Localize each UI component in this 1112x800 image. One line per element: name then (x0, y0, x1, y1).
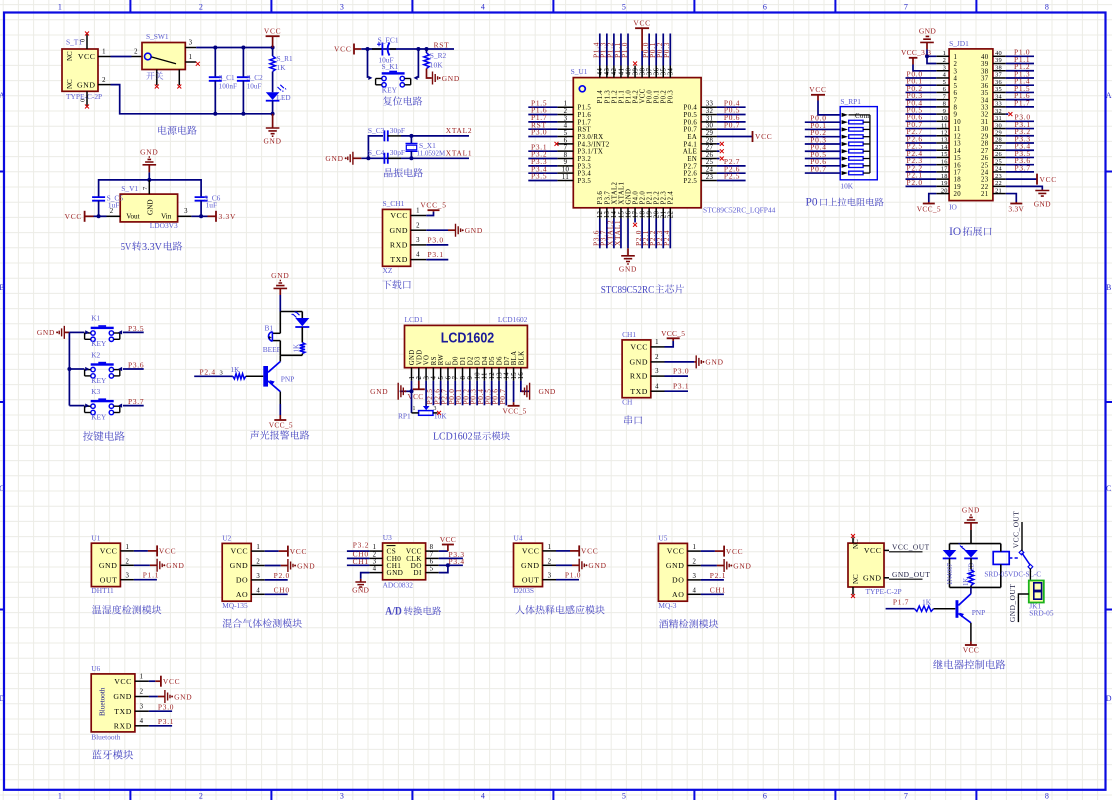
svg-text:VO: VO (424, 355, 431, 366)
pin 25 of JD1 (993, 164, 1006, 166)
svg-text:EN: EN (687, 156, 697, 163)
power port VCC (U1) (148, 550, 157, 552)
svg-text:VCC: VCC (864, 546, 882, 555)
svg-text:39: 39 (632, 68, 639, 76)
svg-text:P1.7: P1.7 (578, 119, 592, 126)
svg-text:XTAL1: XTAL1 (613, 220, 622, 246)
svg-text:14: 14 (611, 211, 618, 219)
svg-text:P3.4: P3.4 (578, 171, 592, 178)
svg-text:VCC_5: VCC_5 (917, 204, 941, 213)
capacitor EC1 10uF electrolytic (372, 48, 382, 50)
wire K2 to P3.6 (123, 368, 144, 370)
svg-text:GND: GND (370, 387, 388, 396)
power port VCC (U5) (715, 550, 724, 552)
pin 44 of U1 (599, 66, 601, 78)
svg-text:28: 28 (995, 137, 1002, 144)
wire net P3.2 (U1 left) (528, 158, 557, 160)
svg-text:1: 1 (58, 3, 62, 12)
pin 2 of V1 (107, 215, 121, 217)
pin 2 of U1 (120, 564, 133, 566)
pin 21 of JD1 (993, 193, 1006, 195)
regulator V1 LDO3V3 (120, 194, 177, 222)
wire net P1.4 (JD1 right) (1006, 84, 1034, 86)
svg-text:18: 18 (639, 211, 646, 219)
svg-text:GND: GND (230, 561, 249, 570)
svg-text:20: 20 (954, 191, 962, 198)
svg-text:34: 34 (981, 97, 989, 104)
wire EA to VCC (717, 136, 753, 138)
svg-text:1: 1 (548, 544, 552, 551)
pin 30 of U1 (701, 128, 717, 130)
svg-text:33: 33 (981, 104, 989, 111)
svg-text:7: 7 (904, 3, 908, 12)
pin 6 of U1 (557, 143, 573, 145)
wire U1 pin2 to GND (134, 564, 150, 566)
wire VCC_OUT stub (889, 551, 923, 553)
svg-text:P2.2: P2.2 (654, 191, 661, 205)
svg-text:15: 15 (941, 151, 948, 158)
svg-text:VCC: VCC (100, 547, 118, 556)
svg-text:VCC: VCC (408, 393, 424, 401)
wire net P2.2 (U1 bottom) (655, 219, 657, 249)
svg-text:19: 19 (941, 180, 948, 187)
svg-text:P0.7: P0.7 (684, 127, 698, 134)
svg-text:4: 4 (481, 3, 485, 12)
wire net P2.5 (LCD) (432, 381, 434, 406)
svg-text:P2.0: P2.0 (640, 191, 647, 205)
pin 2 of SW1 (132, 56, 143, 58)
svg-text:E: E (445, 361, 452, 366)
pin 1 of JD1 (936, 55, 949, 57)
capacitor C1 100nF (214, 48, 216, 78)
wire net P2.0 (JD1 left) (906, 185, 937, 187)
svg-text:A/D: A/D (385, 605, 402, 617)
svg-text:3: 3 (655, 368, 659, 375)
power port VCC (U6) (155, 680, 160, 682)
svg-text:12: 12 (941, 129, 948, 136)
svg-text:NC: NC (66, 51, 74, 61)
title 按键电路 (83, 431, 125, 441)
no-ERC marker on SW1 bottom pin A (155, 85, 159, 89)
svg-text:VDD: VDD (416, 350, 423, 366)
wire net CH1 (U3) (347, 564, 370, 566)
svg-text:34: 34 (995, 93, 1002, 100)
svg-text:3: 3 (954, 68, 958, 75)
wire net P3.6 (JD1 right) (1006, 164, 1034, 166)
relay coil SRD-05VDC-SL-C (993, 552, 1009, 565)
ground GND (U5) (717, 565, 724, 567)
pin 8 of U1 (557, 158, 573, 160)
svg-text:D2: D2 (467, 356, 474, 365)
svg-text:13: 13 (954, 141, 962, 148)
svg-text:12: 12 (954, 133, 962, 140)
wire U4 pin1 to VCC (556, 550, 570, 552)
wire net P3.2 (JD1 right) (1006, 135, 1034, 137)
svg-text:GND: GND (629, 358, 648, 367)
svg-text:P3.4: P3.4 (449, 557, 465, 566)
wire net P3.0 (U6) (149, 710, 172, 712)
svg-text:24: 24 (995, 166, 1002, 173)
wire resistor to base (246, 375, 263, 377)
svg-text:GND: GND (705, 358, 723, 367)
svg-text:6: 6 (763, 3, 767, 12)
svg-text:S_C4: S_C4 (368, 148, 385, 157)
svg-text:XTAL1: XTAL1 (446, 149, 473, 158)
switch SW1 (142, 43, 185, 70)
power port VCC_5 (JD1) (928, 202, 930, 204)
svg-text:GND: GND (140, 147, 158, 156)
svg-text:22: 22 (981, 184, 989, 191)
svg-text:GND: GND (147, 199, 155, 215)
title 继电器控制电路 (933, 660, 1005, 670)
svg-text:9: 9 (943, 108, 946, 115)
svg-text:D203S: D203S (514, 586, 535, 595)
pin 37 of U1 (648, 66, 650, 78)
pin 5 of LCD1 (440, 368, 442, 381)
svg-text:1: 1 (256, 544, 260, 551)
svg-text:P4.0: P4.0 (632, 191, 639, 205)
wire net P1.1 (U1 top) (620, 34, 622, 66)
title 下载口 (382, 280, 411, 289)
pin 6 of LCD1 (447, 368, 449, 381)
svg-text:28: 28 (981, 141, 989, 148)
svg-text:3.3V: 3.3V (142, 241, 162, 253)
svg-text:LCD1: LCD1 (405, 315, 424, 324)
pin 20 of U1 (655, 208, 657, 219)
svg-text:DO: DO (672, 576, 684, 585)
svg-text:GND: GND (666, 561, 685, 570)
svg-text:3: 3 (340, 791, 344, 800)
svg-text:6: 6 (943, 86, 946, 93)
wire U3 DI to DO (439, 565, 448, 572)
pin 5 of JD1 (936, 84, 949, 86)
svg-text:19: 19 (646, 211, 653, 219)
resistor 1K (relay LED) (968, 570, 973, 586)
svg-text:KEY: KEY (91, 339, 107, 348)
svg-text:1: 1 (102, 49, 106, 56)
wire U3 GND pin4 (361, 573, 370, 579)
svg-text:21: 21 (661, 211, 668, 218)
svg-text:26: 26 (981, 155, 989, 162)
ground GND (U1) (627, 248, 629, 256)
wire net P1.1 (JD1 right) (1006, 63, 1034, 65)
ground GND (alarm) (274, 281, 288, 289)
wire net P1.5 (JD1 right) (1006, 91, 1034, 93)
svg-text:P0.3: P0.3 (662, 42, 671, 58)
svg-text:3: 3 (564, 115, 568, 122)
svg-text:C: C (1106, 484, 1111, 493)
svg-text:6: 6 (564, 137, 568, 144)
svg-text:VCC: VCC (231, 547, 249, 556)
pin 1 of CH (651, 346, 665, 348)
ground GND (U4) (572, 564, 579, 566)
pin 39 of JD1 (993, 63, 1006, 65)
connector TYPE-C-2P (relay) (848, 543, 884, 587)
title 人体热释电感应模块 (515, 605, 604, 614)
svg-text:4: 4 (481, 791, 485, 800)
pin 3 of JD1 (936, 70, 949, 72)
svg-text:34: 34 (668, 68, 675, 76)
display LCD1 LCD1602 body (405, 325, 528, 367)
wire collector (alarm) (279, 355, 281, 361)
svg-text:VCC: VCC (159, 547, 176, 556)
power port VCC (EA) (752, 131, 754, 142)
svg-text:24: 24 (981, 170, 989, 177)
junction at C6 bottom (199, 214, 203, 218)
svg-text:22: 22 (668, 211, 675, 219)
svg-text:30: 30 (981, 126, 989, 133)
svg-text:GND: GND (733, 561, 751, 570)
svg-text:P1.4: P1.4 (597, 90, 604, 104)
junction key bus K2 (67, 367, 71, 371)
svg-text:7: 7 (564, 145, 568, 152)
svg-text:2: 2 (140, 689, 144, 696)
svg-text:4: 4 (954, 76, 958, 83)
svg-text:CH1: CH1 (622, 330, 636, 339)
wire CH pin1 to VCC_5 (665, 341, 674, 347)
wire T1 VCC to switch SW1 (111, 56, 132, 58)
svg-text:P1.6: P1.6 (578, 112, 592, 119)
wire net RST (U1 left) (528, 128, 557, 130)
key switch K1 (reset) (382, 72, 405, 74)
svg-text:1: 1 (126, 544, 130, 551)
svg-text:P3.3: P3.3 (578, 163, 592, 170)
svg-text:5: 5 (622, 3, 626, 12)
wire alarm GND stem (279, 295, 281, 312)
svg-text:1uF: 1uF (108, 200, 120, 209)
wire net P2.6 (JD1 left) (906, 142, 937, 144)
svg-text:35: 35 (995, 86, 1002, 93)
svg-text:P1.1: P1.1 (618, 90, 625, 104)
svg-text:9: 9 (564, 159, 568, 166)
svg-text:P1.7: P1.7 (1014, 98, 1030, 107)
pin 1 of CH1 (411, 215, 427, 217)
svg-text:GND: GND (297, 561, 315, 570)
wire JD1 pin22 to GND (1006, 186, 1043, 189)
pin 5 of U3 (426, 572, 439, 574)
wire LDO top rail (99, 180, 202, 196)
svg-text:RW: RW (438, 354, 445, 366)
resistor network RP1 10K (840, 107, 877, 180)
wire net P2.5 (JD1 left) (906, 149, 937, 151)
wire LCD pin3 to potentiometer wiper (425, 381, 427, 407)
wire net P2.7 (JD1 left) (906, 135, 937, 137)
svg-text:1: 1 (409, 376, 416, 380)
svg-text:P0.3: P0.3 (668, 90, 675, 104)
svg-text:VCC: VCC (440, 535, 456, 544)
junction at C1 top (213, 46, 217, 50)
svg-text:3: 3 (340, 3, 344, 12)
svg-text:P3.5: P3.5 (531, 172, 547, 181)
svg-text:9: 9 (954, 112, 958, 119)
pin 2 of U2 (251, 565, 265, 567)
svg-text:25: 25 (981, 162, 989, 169)
wire K1 to P3.5 (123, 331, 144, 333)
wire net P2.7 (U1 right) (717, 165, 746, 167)
no-ERC marker on U1 pin 6 (555, 142, 559, 146)
wire net P3.3 (JD1 right) (1006, 142, 1034, 144)
svg-text:2: 2 (943, 57, 946, 64)
svg-text:31: 31 (981, 119, 989, 126)
title 晶振电路 (384, 168, 423, 177)
svg-text:S_EC1: S_EC1 (378, 35, 399, 44)
pin 37 of JD1 (993, 77, 1006, 79)
svg-text:14: 14 (504, 372, 511, 380)
svg-text:3.3V: 3.3V (219, 212, 237, 221)
wire net P1.2 (U1 top) (613, 34, 615, 66)
svg-text:20: 20 (654, 211, 661, 219)
wire P3.0 (XZ) (426, 244, 448, 246)
svg-text:LCD1602: LCD1602 (441, 331, 495, 347)
wire branch up to C3 (368, 136, 383, 158)
svg-text:4: 4 (416, 252, 420, 259)
svg-text:DI: DI (413, 569, 422, 577)
pin 2 of CH (651, 361, 665, 363)
svg-text:VCC: VCC (522, 547, 540, 556)
wire net P0.4 (RP1) (805, 150, 840, 152)
wire net P1.6 (U1 left) (528, 114, 557, 116)
svg-text:2: 2 (548, 558, 552, 565)
LED D2 (alarm) (301, 312, 303, 319)
svg-text:U3: U3 (383, 533, 392, 542)
wire net P2.4 (JD1 left) (906, 156, 937, 158)
pin 36 of JD1 (993, 84, 1006, 86)
wire net P0.6 (JD1 left) (906, 120, 937, 122)
svg-text:12: 12 (597, 211, 604, 219)
pin 4 of U1 (557, 128, 573, 130)
connector CH serial port (622, 340, 651, 398)
svg-text:RXD: RXD (390, 241, 408, 250)
svg-text:D6: D6 (496, 356, 503, 365)
wire K3 to P3.7 (123, 405, 144, 407)
svg-text:U6: U6 (91, 664, 100, 673)
wire XTAL2 net (401, 135, 469, 137)
svg-text:P4.1: P4.1 (684, 141, 698, 148)
svg-text:D: D (1106, 694, 1112, 703)
svg-text:VCC: VCC (633, 18, 650, 27)
svg-text:2: 2 (126, 558, 130, 565)
pin 30 of JD1 (993, 128, 1006, 130)
pin 38 of U1 (641, 66, 643, 78)
svg-text:4: 4 (943, 72, 947, 79)
svg-text:2: 2 (416, 222, 420, 229)
wire LCD pin16 BLK to GND (521, 381, 529, 392)
capacitor C3 30pF (384, 130, 387, 141)
svg-text:7: 7 (453, 376, 460, 380)
power port 3.3V (JD1) (1015, 202, 1017, 204)
wire net P1.0 (U4) (556, 579, 579, 581)
svg-text:2: 2 (199, 3, 203, 12)
svg-text:S_C1: S_C1 (219, 74, 235, 82)
svg-text:4: 4 (256, 587, 260, 594)
pin 16 of U1 (627, 208, 629, 219)
wire net P2.6 (U1 right) (717, 172, 746, 174)
svg-text:1K: 1K (293, 344, 301, 353)
wire net P3.7 (JD1 right) (1006, 171, 1034, 173)
LED D4 (relay) (964, 550, 978, 558)
wire net P0.5 (RP1) (805, 158, 840, 160)
pin 4 of U6 (135, 725, 149, 727)
no-ERC marker on relay TYPE-C top (851, 534, 855, 538)
svg-text:VCC_5: VCC_5 (269, 420, 293, 429)
pin 39 of U1 (634, 66, 636, 78)
svg-text:P3.1: P3.1 (673, 382, 689, 391)
svg-text:GND_OUT: GND_OUT (892, 570, 930, 579)
wire net P2.1 (U5) (701, 579, 724, 581)
svg-text:KEY: KEY (91, 412, 107, 421)
pin 13 of U1 (606, 208, 608, 219)
svg-text:P0.0: P0.0 (647, 90, 654, 104)
svg-text:4: 4 (431, 376, 438, 380)
wire net P0.4 (U1 right) (717, 106, 746, 108)
svg-text:10: 10 (562, 167, 570, 174)
svg-text:0: 0 (80, 99, 87, 102)
pin 38 of JD1 (993, 70, 1006, 72)
power port VCC (LCD pin2) (418, 381, 420, 390)
pin 16 of JD1 (936, 164, 949, 166)
pin 7 of U1 (557, 150, 573, 152)
svg-text:1: 1 (416, 208, 420, 215)
pin 32 of JD1 (993, 113, 1006, 115)
wire net P3.2 (U3) (347, 550, 370, 552)
svg-text:1: 1 (413, 406, 416, 412)
svg-text:P0.7: P0.7 (810, 164, 826, 173)
no-ERC marker on JD1 pin 32 (1006, 113, 1009, 115)
wire net P3.0 (JD1 right) (1006, 120, 1034, 122)
svg-text:RP1: RP1 (398, 412, 411, 421)
wire net P3.3 (U3) (439, 557, 463, 559)
wire net P3.3 (U1 left) (528, 165, 557, 167)
svg-text:37: 37 (995, 72, 1002, 79)
svg-text:37: 37 (981, 76, 989, 83)
relay switch contact (1009, 557, 1019, 559)
ground GND (XZ) (448, 229, 456, 231)
svg-text:LCD1602: LCD1602 (498, 315, 528, 324)
svg-text:VCC: VCC (163, 677, 180, 686)
svg-text:P2.5: P2.5 (724, 172, 740, 181)
pin 8 of U3 (426, 550, 439, 552)
svg-text:A: A (0, 91, 5, 100)
svg-text:25: 25 (995, 158, 1002, 165)
wire net CH0 (U2) (265, 593, 288, 595)
svg-text:35: 35 (661, 68, 668, 76)
svg-text:VCC: VCC (114, 677, 132, 686)
pin 2 of LCD1 (418, 368, 420, 381)
pin 3 of U3 (369, 564, 382, 566)
svg-text:3: 3 (126, 573, 130, 580)
svg-text:P1.7: P1.7 (893, 598, 909, 607)
wire net P1.0 (JD1 right) (1006, 55, 1034, 57)
svg-text:XTAL2: XTAL2 (611, 182, 618, 205)
wire JD1 pin21 to 3.3V (1006, 194, 1017, 202)
connector T1 TYPE-C-2P (62, 49, 98, 91)
svg-text:4: 4 (140, 718, 144, 725)
pin 21 of U1 (662, 208, 664, 219)
svg-text:26: 26 (995, 151, 1002, 158)
svg-text:P3.7: P3.7 (128, 397, 144, 406)
power port VCC (U2) (279, 550, 288, 552)
pin 1 of U6 (135, 680, 149, 682)
wire net P0.7 (RP1) (805, 172, 840, 174)
svg-text:S_JD1: S_JD1 (949, 39, 969, 48)
svg-text:RST: RST (578, 127, 592, 134)
wire net P2.0 (U2) (265, 579, 288, 581)
svg-text:3: 3 (548, 573, 552, 580)
svg-text:33: 33 (995, 101, 1002, 108)
svg-text:S_RP1: S_RP1 (840, 97, 861, 106)
svg-text:9: 9 (467, 376, 474, 380)
pin 26 of JD1 (993, 156, 1006, 158)
